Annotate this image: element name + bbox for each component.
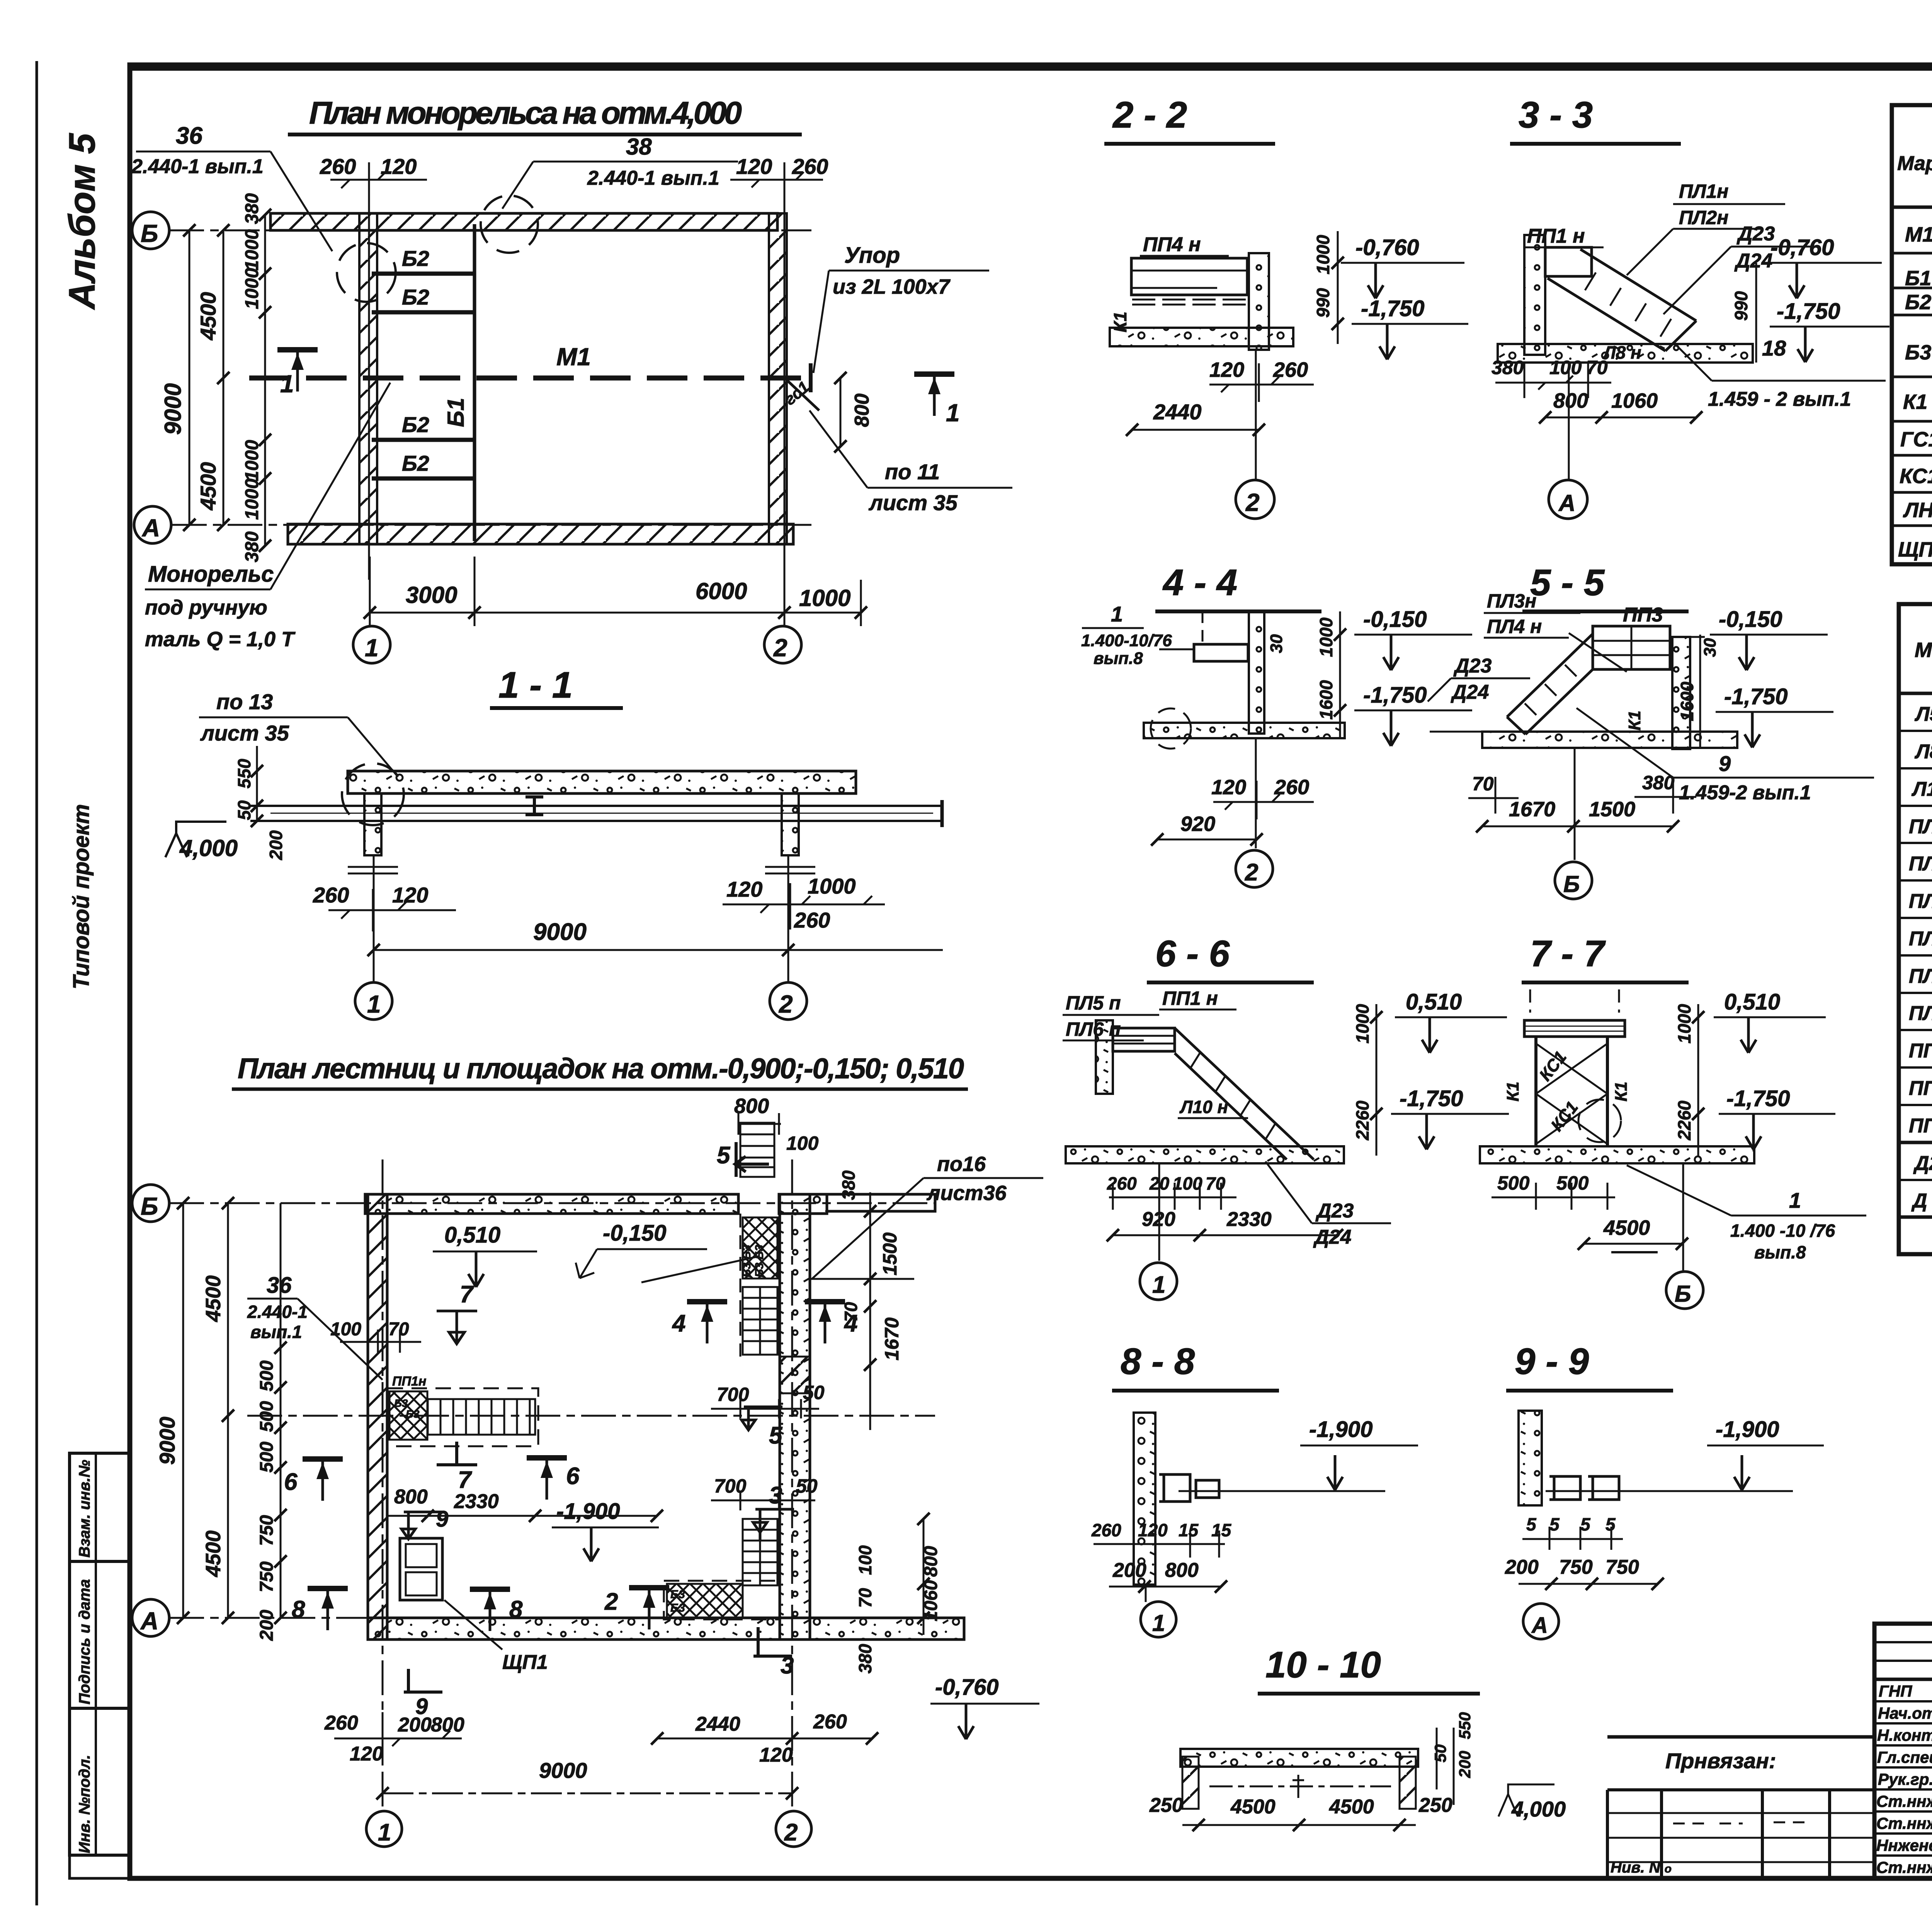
svg-text:Нач.отд.: Нач.отд. <box>1878 1704 1932 1722</box>
svg-text:200: 200 <box>1505 1556 1539 1578</box>
svg-text:260: 260 <box>1091 1520 1121 1540</box>
left stair flight treads <box>428 1399 535 1435</box>
detail circle on top wall <box>481 196 538 253</box>
bottom dim line 3000 6000 1000 <box>370 612 861 614</box>
axis circle 2 <box>770 982 807 1020</box>
svg-text:7: 7 <box>460 1281 474 1308</box>
beam B2 no.1 <box>372 272 475 276</box>
svg-text:Д24: Д24 <box>1734 250 1772 272</box>
svg-text:9: 9 <box>436 1507 448 1532</box>
svg-text:Н.контр.: Н.контр. <box>1877 1726 1932 1744</box>
ShchP1 shield box <box>400 1538 442 1600</box>
svg-text:2260: 2260 <box>1352 1100 1372 1141</box>
vert dim 990 <box>1755 263 1757 363</box>
svg-text:Б3: Б3 <box>394 1397 408 1409</box>
slab band concrete <box>348 771 856 793</box>
svg-text:Л8 н: Л8 н <box>1914 740 1932 763</box>
svg-text:ПП4 н: ПП4 н <box>1909 1114 1932 1137</box>
axis B circle <box>132 212 169 249</box>
svg-text:100: 100 <box>1549 357 1582 378</box>
svg-text:1: 1 <box>1152 1610 1165 1636</box>
svg-text:2440: 2440 <box>1153 400 1202 424</box>
svg-text:1: 1 <box>280 370 294 398</box>
svg-text:К1: К1 <box>1903 390 1927 414</box>
svg-text:550: 550 <box>1456 1712 1474 1739</box>
svg-text:50: 50 <box>234 800 254 820</box>
svg-text:70: 70 <box>841 1302 861 1322</box>
svg-text:А: А <box>1558 490 1575 516</box>
left dim chain small <box>264 215 266 546</box>
svg-text:по16: по16 <box>937 1153 986 1176</box>
axis circle 1 <box>1158 1163 1160 1261</box>
floor band <box>1480 1146 1754 1163</box>
svg-text:лист 35: лист 35 <box>868 490 958 515</box>
svg-text:120: 120 <box>1211 776 1246 799</box>
svg-text:1 - 1: 1 - 1 <box>498 664 573 706</box>
vert dim 1600 <box>1699 635 1701 748</box>
svg-text:120: 120 <box>381 154 417 179</box>
left dim chain 500s <box>280 1203 282 1618</box>
svg-text:1000: 1000 <box>242 478 262 520</box>
svg-text:по 13: по 13 <box>216 690 273 714</box>
svg-text:4500: 4500 <box>1230 1796 1276 1818</box>
I profile mark at center <box>526 797 543 815</box>
svg-text:1000: 1000 <box>1674 1004 1694 1044</box>
svg-text:вып.8: вып.8 <box>1094 649 1143 668</box>
svg-text:500: 500 <box>257 1360 277 1391</box>
svg-text:0,510: 0,510 <box>1724 989 1780 1015</box>
svg-text:ПЛ5 п: ПЛ5 п <box>1066 992 1121 1014</box>
axis circle 1 <box>366 1811 402 1847</box>
svg-text:Л10 н: Л10 н <box>1911 778 1932 800</box>
svg-text:5 - 5: 5 - 5 <box>1530 562 1605 603</box>
svg-text:800: 800 <box>1553 389 1588 412</box>
svg-text:2: 2 <box>604 1588 618 1615</box>
svg-text:2: 2 <box>1245 859 1258 886</box>
svg-text:Л10 н: Л10 н <box>1179 1097 1228 1117</box>
stair slope down-right <box>1175 1028 1314 1159</box>
floor band <box>1110 328 1293 346</box>
right shaft xhatch platform <box>743 1217 777 1279</box>
top platform box <box>1545 247 1592 276</box>
axis circle 1 <box>1145 1585 1147 1602</box>
svg-text:550: 550 <box>234 759 254 788</box>
svg-text:6: 6 <box>284 1469 298 1495</box>
table 2 grid <box>1899 604 1932 1254</box>
svg-text:-0,150: -0,150 <box>1719 607 1782 632</box>
svg-text:Б: Б <box>141 1192 158 1220</box>
svg-text:120: 120 <box>350 1743 383 1765</box>
axis line col2 <box>787 855 789 982</box>
svg-text:Б: Б <box>1675 1281 1691 1307</box>
svg-text:10 - 10: 10 - 10 <box>1265 1644 1381 1685</box>
svg-text:5: 5 <box>1526 1514 1537 1534</box>
svg-text:вып.1: вып.1 <box>250 1322 302 1342</box>
svg-text:700: 700 <box>717 1384 749 1405</box>
beam B2 no.2 <box>372 310 475 315</box>
svg-text:Д 24: Д 24 <box>1911 1190 1932 1212</box>
table 2 data rows <box>1909 703 1932 1212</box>
beam B1 vertical <box>473 224 476 541</box>
channel profiles <box>1159 1474 1219 1502</box>
svg-text:Инв. №подл.: Инв. №подл. <box>76 1755 93 1853</box>
svg-text:Ст.ннж.: Ст.ннж. <box>1876 1814 1932 1832</box>
svg-text:1000: 1000 <box>808 874 856 898</box>
svg-text:120: 120 <box>726 877 762 901</box>
svg-text:920: 920 <box>1180 812 1215 836</box>
rail lines under platform <box>1132 300 1252 305</box>
axis circle 2 <box>1255 738 1257 848</box>
svg-text:Л8 н: Л8 н <box>1602 342 1641 363</box>
svg-text:лист 35: лист 35 <box>200 721 289 745</box>
svg-text:5: 5 <box>769 1422 783 1449</box>
axis circle A <box>1568 363 1570 479</box>
svg-text:ПЛ1н: ПЛ1н <box>1679 180 1728 202</box>
svg-text:260: 260 <box>320 154 356 179</box>
svg-text:Типовой проект: Типовой проект <box>69 804 94 989</box>
svg-text:6 - 6: 6 - 6 <box>1155 933 1230 974</box>
svg-text:1600: 1600 <box>1316 680 1336 720</box>
svg-text:2440: 2440 <box>695 1713 740 1735</box>
small empty grid <box>1607 1790 1874 1878</box>
svg-text:лист36: лист36 <box>926 1182 1007 1205</box>
svg-text:Б3 Б3: Б3 Б3 <box>740 1245 753 1278</box>
left sheet edge line <box>36 61 38 1905</box>
axis circle B <box>1574 748 1576 860</box>
signature table grid <box>1874 1624 1932 1878</box>
svg-text:М1: М1 <box>1905 223 1932 246</box>
extra thick top border line <box>130 67 1932 71</box>
platform at left <box>1113 1028 1175 1051</box>
svg-text:ПП3: ПП3 <box>1623 604 1663 626</box>
svg-text:8: 8 <box>292 1596 305 1623</box>
svg-text:1000: 1000 <box>242 440 262 481</box>
vert dims 1000 1600 <box>1339 611 1341 738</box>
section mark 1 left <box>277 350 318 392</box>
svg-text:1500: 1500 <box>879 1233 901 1275</box>
margin box: Взам. инв.№ <box>70 1453 130 1561</box>
axis circle 2 bottom <box>764 626 801 663</box>
svg-text:1000: 1000 <box>1352 1004 1372 1044</box>
svg-text:9 - 9: 9 - 9 <box>1515 1341 1589 1382</box>
svg-text:750: 750 <box>257 1561 277 1592</box>
svg-text:380: 380 <box>1492 357 1524 378</box>
left dim chain 9000 <box>182 1203 184 1618</box>
svg-text:из 2L 100х7: из 2L 100х7 <box>833 275 951 298</box>
svg-text:Б: Б <box>141 220 158 247</box>
signature table labels <box>1876 1682 1932 1876</box>
column 2 break mark <box>765 867 815 873</box>
floor edge line mid right <box>810 1278 914 1280</box>
platform grid <box>1593 626 1670 669</box>
small bottom margin box <box>70 1855 130 1878</box>
svg-text:-1,750: -1,750 <box>1363 683 1427 708</box>
svg-text:Марка: Марка <box>1915 638 1932 662</box>
center anchor mark <box>1293 1775 1304 1798</box>
svg-text:250: 250 <box>1149 1794 1183 1817</box>
svg-text:260: 260 <box>813 1711 847 1733</box>
svg-text:Гл.спец.: Гл.спец. <box>1877 1748 1932 1766</box>
axis circle A <box>1523 1604 1559 1639</box>
svg-text:3: 3 <box>769 1482 782 1509</box>
svg-text:А: А <box>140 1607 158 1635</box>
svg-text:ПЛ4 н: ПЛ4 н <box>1909 927 1932 950</box>
column line 2 dash <box>791 1159 793 1809</box>
svg-text:Д23: Д23 <box>1736 223 1775 245</box>
left dim chain 4500s <box>227 1203 229 1618</box>
svg-text:800: 800 <box>1165 1559 1199 1582</box>
svg-text:1000: 1000 <box>242 229 262 271</box>
svg-text:Л5н: Л5н <box>1914 703 1932 725</box>
left stair: platform xhatch <box>389 1391 427 1440</box>
svg-text:200: 200 <box>257 1610 277 1641</box>
stair slope band <box>1548 249 1696 351</box>
svg-text:750: 750 <box>1605 1556 1639 1578</box>
axis A circle <box>134 506 171 543</box>
svg-text:380: 380 <box>855 1644 875 1674</box>
svg-text:ГС1: ГС1 <box>1900 428 1932 451</box>
svg-text:750: 750 <box>1559 1556 1593 1578</box>
svg-text:ПЛ2н: ПЛ2н <box>1679 207 1728 228</box>
left wall vertical hatched <box>368 1194 387 1639</box>
svg-text:Б: Б <box>1563 871 1580 897</box>
svg-text:1.459 - 2 вып.1: 1.459 - 2 вып.1 <box>1708 388 1851 410</box>
svg-text:5: 5 <box>1580 1514 1591 1534</box>
svg-text:-1,750: -1,750 <box>1400 1086 1463 1111</box>
wall strip <box>1519 1411 1542 1505</box>
svg-text:-1,900: -1,900 <box>1309 1417 1372 1442</box>
column line 1 dash <box>382 1159 384 1809</box>
axis circle B <box>1682 1163 1684 1271</box>
svg-text:120: 120 <box>392 883 428 907</box>
svg-text:200: 200 <box>1456 1751 1474 1778</box>
column 2 stub <box>782 793 799 855</box>
svg-text:2: 2 <box>1245 489 1260 516</box>
svg-text:260: 260 <box>1107 1173 1137 1193</box>
detail circle on pier 1 <box>337 243 396 302</box>
svg-text:К1: К1 <box>1612 1081 1631 1102</box>
svg-text:4: 4 <box>672 1310 685 1337</box>
svg-text:1.400-10/76: 1.400-10/76 <box>1081 631 1172 650</box>
svg-text:260: 260 <box>792 154 828 179</box>
svg-text:Ннженер: Ннженер <box>1876 1836 1932 1854</box>
svg-text:ПП1н: ПП1н <box>392 1374 426 1389</box>
svg-text:1: 1 <box>1152 1272 1165 1298</box>
svg-text:1670: 1670 <box>1509 798 1555 821</box>
svg-text:7: 7 <box>458 1467 472 1493</box>
svg-text:8: 8 <box>509 1596 523 1623</box>
svg-text:2: 2 <box>779 990 793 1018</box>
svg-text:1: 1 <box>946 399 960 427</box>
svg-text:0,510: 0,510 <box>1406 989 1462 1015</box>
svg-text:120: 120 <box>1209 358 1244 381</box>
svg-text:70: 70 <box>1472 773 1494 795</box>
vert dims 1000 2260 <box>1697 1004 1699 1156</box>
column 1 stub <box>364 793 381 855</box>
level 4,000 arrow <box>165 822 226 857</box>
svg-text:120: 120 <box>1138 1520 1168 1540</box>
right shaft opening dashed <box>740 1214 742 1357</box>
channel profiles <box>1549 1476 1619 1500</box>
beam rail bottom line <box>250 820 943 822</box>
right wall hatch segment below stair <box>780 1357 810 1393</box>
svg-text:ПП3: ПП3 <box>1909 1077 1932 1100</box>
svg-text:4500: 4500 <box>202 1531 225 1577</box>
svg-text:Прнвязан:: Прнвязан: <box>1665 1748 1776 1773</box>
svg-text:120: 120 <box>759 1744 793 1766</box>
svg-text:9000: 9000 <box>160 383 186 435</box>
svg-text:1: 1 <box>367 990 381 1018</box>
margin box: Инв. №подл. <box>70 1708 130 1855</box>
svg-text:Взам. инв.№: Взам. инв.№ <box>76 1460 93 1558</box>
svg-text:990: 990 <box>1731 291 1751 321</box>
svg-text:ЛН: ЛН <box>1903 499 1932 522</box>
svg-text:1000: 1000 <box>1313 235 1333 274</box>
svg-text:700: 700 <box>714 1475 747 1497</box>
level line -1,900 <box>1179 1490 1385 1492</box>
brace gs1 diagonal <box>787 381 819 410</box>
svg-text:4500: 4500 <box>196 462 220 511</box>
svg-text:1: 1 <box>378 1819 391 1846</box>
svg-text:ПЛ2н: ПЛ2н <box>1909 852 1932 875</box>
svg-text:200: 200 <box>398 1714 432 1736</box>
svg-text:Д24: Д24 <box>1313 1226 1351 1248</box>
svg-text:А: А <box>1531 1613 1548 1638</box>
wall strip <box>1249 611 1264 734</box>
svg-text:1000: 1000 <box>799 585 850 611</box>
svg-text:ПЛ4 н: ПЛ4 н <box>1487 616 1542 637</box>
top wall band concrete <box>365 1194 738 1214</box>
axis line col1 <box>373 855 375 982</box>
svg-text:36: 36 <box>267 1273 292 1298</box>
svg-text:Б3: Б3 <box>1905 341 1931 364</box>
detail circle <box>342 763 404 825</box>
svg-text:-0,150: -0,150 <box>603 1221 666 1246</box>
vert dim 1000/990 <box>1337 231 1339 344</box>
svg-text:9000: 9000 <box>155 1416 179 1465</box>
svg-text:500: 500 <box>257 1442 277 1473</box>
top wall hatched <box>270 213 777 230</box>
svg-text:ПП1 м: ПП1 м <box>1909 1039 1932 1062</box>
left small dims 550 50 200 <box>256 746 258 821</box>
svg-text:2: 2 <box>773 634 787 662</box>
svg-text:ГНП: ГНП <box>1879 1682 1912 1700</box>
table 1 grid <box>1892 105 1932 564</box>
svg-text:1.459-2 вып.1: 1.459-2 вып.1 <box>1679 781 1811 804</box>
svg-text:800: 800 <box>394 1486 428 1508</box>
svg-text:Д23: Д23 <box>1453 655 1492 677</box>
level line -1,900 <box>1546 1490 1793 1492</box>
svg-text:2.440-1: 2.440-1 <box>247 1302 308 1322</box>
dashed rail at platform <box>1430 637 1705 732</box>
right wall vertical concrete <box>780 1194 810 1639</box>
svg-text:800: 800 <box>734 1095 769 1118</box>
svg-text:таль Q = 1,0 Т: таль Q = 1,0 Т <box>145 628 296 651</box>
svg-text:5: 5 <box>717 1142 731 1169</box>
svg-text:380: 380 <box>242 531 262 562</box>
svg-text:70: 70 <box>1206 1173 1226 1193</box>
svg-text:50: 50 <box>803 1382 825 1403</box>
svg-text:2.440-1 вып.1: 2.440-1 вып.1 <box>131 155 264 178</box>
svg-text:ПЛ6 н: ПЛ6 н <box>1909 1002 1932 1025</box>
left wall stub <box>1182 1757 1199 1809</box>
svg-text:8 - 8: 8 - 8 <box>1121 1341 1195 1382</box>
level 4,000 up arrow <box>1498 1784 1554 1817</box>
beam B2 no.4 <box>372 477 475 481</box>
svg-text:2330: 2330 <box>454 1490 499 1513</box>
detail circle <box>1578 1100 1621 1142</box>
svg-text:250: 250 <box>1418 1794 1452 1817</box>
svg-text:4500: 4500 <box>1329 1796 1374 1818</box>
svg-text:-1,750: -1,750 <box>1724 684 1787 709</box>
svg-text:5: 5 <box>1549 1514 1560 1534</box>
left stair dashed outline <box>388 1388 538 1446</box>
axis B line <box>169 230 811 232</box>
axis A line <box>172 524 811 526</box>
column line 1 vertical <box>368 186 370 580</box>
svg-text:Нив. N о: Нив. N о <box>1611 1859 1672 1876</box>
right shaft stair treads (section 4 stairs) <box>743 1287 777 1355</box>
svg-text:9000: 9000 <box>533 919 587 945</box>
svg-text:4,000: 4,000 <box>179 835 238 861</box>
svg-text:Б3: Б3 <box>670 1588 685 1601</box>
svg-text:Б2: Б2 <box>402 246 429 271</box>
wall pier column 1 <box>359 213 377 544</box>
mid horizontal centerline <box>247 1415 935 1417</box>
svg-text:380: 380 <box>838 1170 859 1200</box>
wall strip <box>1249 253 1269 350</box>
beam rail inner line <box>270 813 933 814</box>
platform box <box>1131 258 1247 295</box>
right wall stub <box>1400 1757 1416 1809</box>
svg-text:ПП4 н: ПП4 н <box>1143 233 1201 256</box>
slab band <box>1180 1749 1418 1767</box>
svg-text:30: 30 <box>1267 634 1286 653</box>
svg-text:1500: 1500 <box>1589 798 1635 821</box>
axis A line <box>169 1617 964 1619</box>
svg-text:Б3: Б3 <box>670 1602 685 1614</box>
platform slab <box>1194 644 1248 661</box>
svg-text:6: 6 <box>566 1463 580 1490</box>
svg-text:ЩП1: ЩП1 <box>502 1651 548 1674</box>
svg-text:1000: 1000 <box>242 268 262 309</box>
svg-text:-1,750: -1,750 <box>1777 299 1840 324</box>
section mark 1 right <box>914 374 954 416</box>
beam rail top line <box>250 805 943 807</box>
wall strip right <box>1672 637 1690 749</box>
svg-text:50: 50 <box>796 1475 818 1497</box>
lattice column <box>1536 1037 1607 1146</box>
svg-text:15: 15 <box>1211 1520 1232 1540</box>
svg-text:Б3 Б3: Б3 Б3 <box>753 1245 766 1278</box>
svg-text:2330: 2330 <box>1226 1208 1272 1231</box>
svg-text:План монорельса на отм.4,000: План монорельса на отм.4,000 <box>309 95 742 131</box>
svg-text:Д23: Д23 <box>1913 1152 1932 1175</box>
left dim chain 4500+4500 <box>223 230 224 525</box>
svg-text:4500: 4500 <box>196 292 220 340</box>
wall strip <box>1134 1413 1155 1585</box>
svg-text:36: 36 <box>176 123 202 149</box>
svg-text:100: 100 <box>330 1319 361 1340</box>
svg-text:-0,760: -0,760 <box>1770 235 1834 260</box>
svg-text:-1,750: -1,750 <box>1361 296 1424 321</box>
svg-text:К1: К1 <box>1110 312 1130 332</box>
svg-text:380: 380 <box>242 193 262 224</box>
column 1 break mark <box>348 867 398 873</box>
svg-text:1600: 1600 <box>1677 681 1697 721</box>
svg-text:ПЛ3н: ПЛ3н <box>1487 590 1536 612</box>
axis circle 1 bottom <box>353 626 390 663</box>
